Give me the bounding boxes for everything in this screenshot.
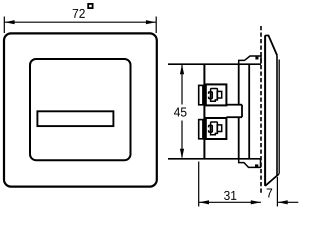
dimension 7: outside arrow line bbox=[278, 201, 298, 203]
dimension 72: left extension line bbox=[3, 17, 5, 34]
jack keystone body bbox=[211, 122, 218, 135]
side view: housing front face bbox=[203, 64, 205, 159]
jack keystone insert notch bbox=[208, 94, 210, 97]
jack keystone body bbox=[211, 89, 218, 102]
jack keystone tab bbox=[217, 125, 222, 132]
side view: bottom jack bezel bbox=[199, 120, 203, 139]
dimension 31: right arrowhead bbox=[251, 200, 261, 204]
side view: step between jacks top bbox=[226, 104, 242, 106]
side view: support frame front edge lower segment bbox=[238, 117, 240, 159]
side view: wall plane dashed line bbox=[260, 26, 262, 194]
dimension 31: left extension line bbox=[198, 162, 200, 207]
dimension 31: dimension line bbox=[199, 201, 261, 203]
dimension 72: square symbol bbox=[88, 4, 92, 8]
dimension 72: right extension line bbox=[155, 17, 157, 34]
dimension 31: text 31 bbox=[224, 191, 236, 200]
side view: cover plate rear face bbox=[264, 35, 266, 186]
dimension 7: right extension line bbox=[276, 177, 278, 207]
dimension 45: up arrowhead bbox=[180, 65, 184, 75]
jack keystone insert notch bbox=[208, 127, 210, 130]
dimension 72: dimension line bbox=[4, 21, 156, 23]
side view: top jack body bbox=[206, 84, 227, 105]
side view: top claw bbox=[239, 56, 261, 64]
side view: support frame front edge upper segment bbox=[238, 64, 240, 105]
dimension 45: dimension line upper segment bbox=[181, 65, 183, 105]
side view: bottom claw bbox=[239, 159, 261, 167]
dimension 31: left arrowhead bbox=[199, 200, 209, 204]
side view: housing top line with 45-dim extension bbox=[168, 63, 261, 65]
dimension 72: left arrowhead bbox=[5, 20, 15, 24]
side view: top jack bezel bbox=[199, 85, 203, 104]
side view: cover plate top edge and chamfer bbox=[265, 36, 277, 56]
dimension 72: right arrowhead bbox=[146, 20, 156, 24]
dimension 72: text 72 bbox=[73, 9, 85, 18]
jack keystone left insert bbox=[209, 125, 213, 132]
dimension 7: outside arrowhead bbox=[278, 200, 288, 204]
front view label window bbox=[37, 111, 113, 126]
side view: cover plate front face line bbox=[278, 60, 280, 174]
side view: bottom jack body bbox=[206, 118, 227, 139]
side view: top claw tooth bbox=[255, 57, 258, 60]
dimension 45: text 45 bbox=[174, 108, 187, 117]
side view: bottom claw tooth bbox=[255, 164, 258, 167]
front view inner frame bbox=[30, 59, 131, 160]
jack keystone left insert bbox=[209, 92, 213, 99]
dimension 7: text 7 bbox=[267, 189, 272, 198]
side view: cover plate front corner line bbox=[276, 55, 278, 176]
side view: support frame rear edge bbox=[248, 64, 250, 159]
dimension 45: dimension line lower segment bbox=[181, 121, 183, 158]
side view: cover plate bottom chamfer bbox=[265, 174, 279, 186]
side view: step between jacks vertical bbox=[241, 105, 243, 118]
front view outer plate bbox=[4, 33, 157, 186]
side view: housing bottom line with 45-dim extension bbox=[168, 158, 261, 160]
jack keystone tab bbox=[217, 91, 222, 98]
side view: step between jacks bottom bbox=[226, 116, 242, 118]
dimension 45: down arrowhead bbox=[180, 149, 184, 159]
